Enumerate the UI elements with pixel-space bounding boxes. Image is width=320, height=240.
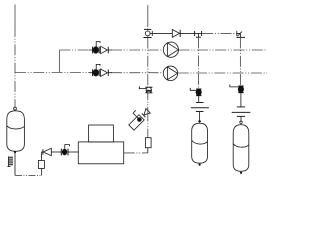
- wire: center riser V2 (pump discharge): [147, 5, 149, 21]
- tank/accumulator T1 (left): [7, 107, 25, 153]
- flange tick before elbow: [236, 31, 238, 36]
- ball: [136, 116, 143, 123]
- wire: elbow to accumulator column 2: [237, 33, 241, 37]
- wire: header segment to tee: [180, 32, 202, 34]
- union / charging connection bars (column 1): [191, 103, 209, 121]
- union / charging connection bars (column 2): [232, 107, 251, 121]
- wire: CV4 to ball valve B1: [51, 151, 61, 153]
- heater / spring element beside drop leg: [7, 156, 13, 166]
- check valve CV3 (top header): [172, 30, 180, 38]
- handle: [133, 110, 141, 118]
- pump unit block (reservoir + motor): [78, 125, 123, 164]
- wire: top header continues to right elbow: [202, 32, 237, 34]
- accumulator A1: [192, 120, 208, 166]
- ball valve B3 (lower header): [93, 64, 100, 76]
- check valve CV2 (lower header): [101, 69, 109, 76]
- wire: upper header y=50: [59, 49, 89, 51]
- pump P2 (lower): [163, 66, 177, 80]
- wire: bottom suction run: [15, 174, 42, 176]
- check valve CV4 (suction, points left): [43, 148, 51, 155]
- wire: SV1 to union: [198, 96, 200, 103]
- shut-off valve SV1: [190, 88, 201, 96]
- wire: left supply riser V1: [14, 5, 16, 27]
- wire: short solid stubs at valve group 1: [89, 49, 112, 51]
- wire: short solid stubs at valve group 2: [89, 72, 112, 74]
- wire: block discharge to center riser: [124, 152, 148, 154]
- elbow chamfer mark: [237, 32, 242, 37]
- filter F2 on center riser: [145, 138, 151, 148]
- wire: B1 to pump unit: [68, 151, 78, 153]
- valve body: [129, 115, 144, 130]
- wire: branch riser at x=59.4: [58, 50, 60, 73]
- wire: accumulator column 1 riser x=198.6: [198, 37, 200, 88]
- tee stub to accumulator column 1: [197, 33, 199, 37]
- check valve CV5 (tilted): [142, 109, 150, 117]
- wire: tank drop leg: [14, 153, 16, 175]
- shut-off valve SV3 (center riser): [139, 86, 152, 93]
- ball valve B2 (upper header): [93, 42, 100, 54]
- pump P1 (upper): [163, 42, 178, 57]
- wire: accumulator column 2 riser x=240.4: [239, 37, 241, 85]
- wire: SV2 to union: [240, 93, 242, 107]
- shut-off valve SV2: [230, 85, 244, 93]
- filter F1: [38, 161, 44, 169]
- wire: riser into filter F1: [41, 169, 43, 176]
- flange ticks at tee: [194, 31, 196, 36]
- accumulator A2: [233, 121, 249, 174]
- relief branch (45 deg) off center riser: [125, 104, 151, 130]
- wire: elbow up into filter F2: [147, 148, 149, 153]
- flange tick: [151, 31, 153, 36]
- wire: lower return header y=72.5: [15, 72, 89, 74]
- ball valve B1 (suction): [61, 145, 69, 156]
- check valve CV1 (upper header): [101, 46, 109, 53]
- wire: filter F1 to check valve CV4: [42, 152, 43, 161]
- gauge port G1 with flanges: [143, 29, 151, 37]
- wire: top discharge header y=33.4: [150, 32, 172, 34]
